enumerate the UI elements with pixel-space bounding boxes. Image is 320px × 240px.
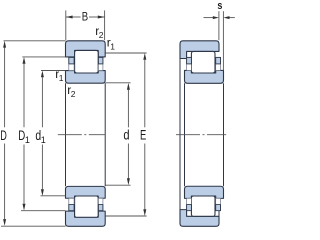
bearing section upper xyxy=(66,41,106,83)
svg-text:1: 1 xyxy=(59,73,64,83)
wire: silhouette left edge xyxy=(65,83,67,186)
d1 dimension xyxy=(41,71,66,196)
svg-text:d: d xyxy=(123,126,129,142)
svg-text:E: E xyxy=(140,126,146,142)
svg-text:s: s xyxy=(217,0,222,12)
centerline right xyxy=(176,134,226,136)
wire: silhouette right edge xyxy=(104,83,106,186)
bearing section upper xyxy=(180,41,224,84)
bearing section lower (mirror) xyxy=(66,186,106,226)
d dimension xyxy=(105,83,130,185)
svg-text:2: 2 xyxy=(71,89,76,99)
svg-text:1: 1 xyxy=(25,135,30,145)
wire: outer ring right face lower xyxy=(218,211,220,217)
s dimension xyxy=(204,11,235,70)
wire: inner ring left edge xyxy=(184,83,186,186)
D dimension xyxy=(1,41,66,226)
wire: inner ring right edge xyxy=(223,83,225,186)
svg-text:1: 1 xyxy=(41,135,46,145)
svg-text:1: 1 xyxy=(110,42,115,52)
svg-text:2: 2 xyxy=(99,30,104,40)
svg-text:D: D xyxy=(0,127,7,143)
D1 dimension xyxy=(21,57,66,211)
wire: outer ring left edge xyxy=(179,59,181,210)
centerline xyxy=(58,134,106,136)
bearing section lower (mirror) xyxy=(180,186,224,226)
B dimension xyxy=(66,10,105,40)
E dimension xyxy=(105,53,146,216)
svg-text:B: B xyxy=(82,12,89,24)
